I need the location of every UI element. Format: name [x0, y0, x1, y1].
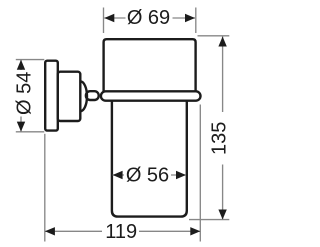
- dimension line dia69: [104, 17, 195, 19]
- dimension line 119: [45, 230, 200, 232]
- svg-text:Ø 56: Ø 56: [126, 165, 169, 187]
- arrowhead dia56 right: [176, 171, 186, 179]
- arrowhead dia54 up: [17, 60, 25, 70]
- extension line dia69 left: [103, 8, 105, 34]
- extension line 135 bottom: [189, 219, 229, 221]
- svg-text:Ø 54: Ø 54: [14, 72, 36, 115]
- arrowhead 135 up: [218, 37, 226, 47]
- arrowhead dia69 left: [104, 14, 114, 22]
- arrowhead 135 down: [218, 210, 226, 220]
- arrowhead dia56 left: [113, 171, 123, 179]
- svg-text:Ø 69: Ø 69: [127, 7, 170, 29]
- holder ring (side view capsule): [101, 91, 201, 100]
- arrowhead dia54 down: [17, 122, 25, 132]
- extension line dia54 top: [16, 59, 45, 61]
- extension line 135 top: [198, 35, 230, 37]
- holder base block: [58, 72, 81, 121]
- connector ball: [86, 91, 99, 100]
- extension line 119 left: [44, 134, 46, 242]
- extension line dia69 right: [195, 8, 197, 34]
- arrowhead dia69 right: [185, 14, 195, 22]
- svg-text:135: 135: [209, 122, 231, 155]
- dimension line 135: [222, 37, 224, 220]
- extension line dia54 bottom: [16, 131, 45, 133]
- dimension line dia56: [113, 174, 186, 176]
- flare (trumpet face of base): [80, 81, 87, 111]
- wall plate (escutcheon, side view): [45, 61, 58, 131]
- dimension line dia54: [20, 60, 22, 132]
- tumbler upper body (dia 69): [104, 39, 196, 96]
- svg-text:119: 119: [105, 221, 137, 243]
- extension line 119 right: [199, 105, 201, 242]
- arrowhead 119 left: [45, 227, 55, 235]
- arrowhead 119 right: [190, 227, 200, 235]
- tumbler lower body (dia 56): [112, 99, 187, 217]
